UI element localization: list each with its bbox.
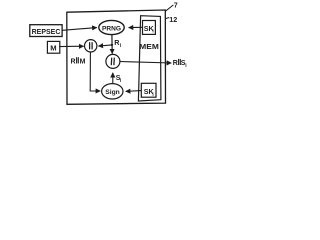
- concat circle U2 "||": [106, 54, 120, 68]
- svg-text:M: M: [80, 58, 86, 65]
- REPSEC box: [30, 25, 62, 37]
- svg-text:i: i: [185, 63, 187, 69]
- outer device box 12: [67, 10, 166, 104]
- label 12 leader line: [165, 18, 169, 19]
- wire REPSEC to PRNG: [62, 28, 97, 31]
- svg-text:i: i: [152, 28, 153, 34]
- svg-text:i: i: [120, 43, 122, 49]
- svg-text:REPSEC: REPSEC: [32, 27, 61, 36]
- svg-text:MEM: MEM: [139, 42, 159, 51]
- M box: [47, 41, 59, 53]
- concat circle U1 "||": [85, 40, 97, 52]
- wire branch Ri to concat1: [98, 45, 112, 46]
- wire PRNG down to concat2: [111, 35, 113, 54]
- wire concat2 to output: [120, 62, 171, 64]
- SK_i box bottom: [141, 83, 156, 97]
- wire M to concat1: [59, 45, 83, 47]
- label 7 leader line: [165, 5, 173, 11]
- svg-text:i: i: [120, 78, 122, 84]
- MEM box: [138, 16, 161, 101]
- svg-text:R: R: [71, 58, 76, 65]
- PRNG ellipse: [99, 20, 124, 34]
- svg-text:7: 7: [174, 1, 178, 10]
- Sign ellipse: [102, 84, 123, 99]
- svg-text:Sign: Sign: [105, 89, 120, 96]
- SK box top: [143, 21, 156, 35]
- wire SK_i to Sign: [126, 90, 142, 93]
- junction dot Ri branch: [111, 44, 113, 46]
- wire Sign up to concat2: [112, 73, 114, 84]
- svg-text:R: R: [173, 60, 178, 67]
- wire concat1 down to Sign: [90, 52, 100, 91]
- svg-text:M: M: [50, 44, 56, 53]
- wire SK to PRNG: [129, 26, 143, 28]
- svg-text:12: 12: [169, 15, 177, 24]
- svg-text:i: i: [152, 92, 153, 98]
- svg-text:PRNG: PRNG: [102, 25, 121, 32]
